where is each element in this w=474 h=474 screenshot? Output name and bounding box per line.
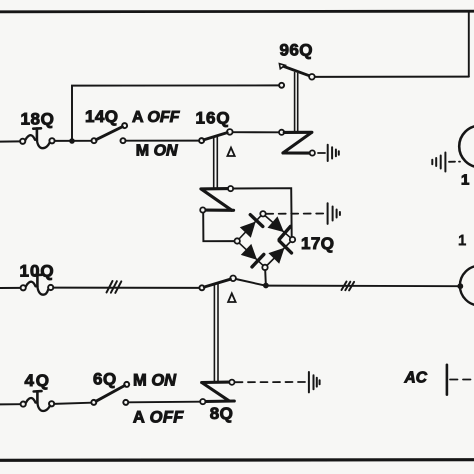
wire riser to top bus [468,12,470,76]
wire resistor to bridge left node [203,213,234,242]
svg-text:8Q: 8Q [210,404,234,423]
contactor (middle, delta) [199,276,263,291]
delta symbol (16Q) [227,148,234,156]
delta symbol (middle) [228,293,236,302]
mechanical linkage (middle contactor) [214,283,218,381]
svg-text:18Q: 18Q [21,110,55,129]
mechanical linkage (96Q) [295,73,298,132]
svg-text:17Q: 17Q [301,234,334,253]
svg-text:1: 1 [461,172,469,189]
ground (96Q resistor) [328,145,339,161]
AC supply plate [446,365,449,395]
wire bottom rail from left edge [0,403,21,405]
node junction (bridge to rail) [263,283,269,289]
node junction [69,138,75,144]
switch 6Q [91,370,129,405]
wire 96Q to right riser [315,76,469,78]
switch 96Q [279,41,315,88]
top bus line [0,10,474,13]
diode lower-right [268,248,284,264]
dashed wire AC to right edge [450,379,474,381]
dashed wire 8Q to ground [236,381,306,383]
contactor 16Q [196,109,280,144]
ground (upper right) [432,153,445,172]
svg-text:M ON: M ON [136,143,178,160]
resistor (16Q dynamic braking) [200,186,233,213]
diode lower-left [241,244,257,260]
wire bridge bottom to rail junction [264,270,267,284]
wire [126,140,200,142]
svg-text:1: 1 [458,232,466,249]
wire middle rail from left edge [0,287,21,289]
svg-text:6Q: 6Q [93,370,117,389]
feeder break marks [107,281,122,293]
wire riser to 96Q contact [72,85,279,140]
switch 14Q [85,107,127,143]
svg-text:16Q: 16Q [196,109,231,128]
diode upper-right [268,216,284,232]
wire top rail from left edge [0,140,20,142]
motor armature circle (right) [460,266,474,306]
circuit breaker 18Q [20,110,55,149]
svg-text:10Q: 10Q [20,261,55,280]
feeder break marks (right) [342,282,355,291]
bottom frame line [0,458,474,462]
node at motor [457,283,463,289]
svg-text:14Q: 14Q [85,107,118,126]
svg-text:AC: AC [404,370,428,387]
mechanical linkage (16Q) [214,137,218,188]
svg-text:A OFF: A OFF [133,408,184,426]
circuit breaker 10Q [20,261,55,294]
resistor (96Q) [279,130,315,156]
wire [53,287,199,289]
svg-text:A OFF: A OFF [132,109,181,126]
svg-text:96Q: 96Q [280,41,313,60]
dashed lead circle to ground (upper right) [449,161,460,163]
circuit breaker 4Q [21,371,55,411]
resistor 8Q [200,380,234,423]
wire [54,403,91,404]
svg-text:M ON: M ON [133,371,177,389]
wire [55,140,92,142]
ground (8Q) [309,372,320,392]
wire [128,401,200,404]
svg-text:4Q: 4Q [25,371,51,390]
wire lead to ground (96Q resistor) [318,152,325,154]
wire middle rail right [269,285,458,288]
diode upper-left [240,222,256,238]
wire resistor to bridge right node [233,188,292,237]
rectifier bridge 17Q [235,211,335,270]
dashed wire bridge top node to ground [266,213,324,215]
ground (bridge) [328,203,340,224]
generator circle (upper right) [459,126,474,168]
